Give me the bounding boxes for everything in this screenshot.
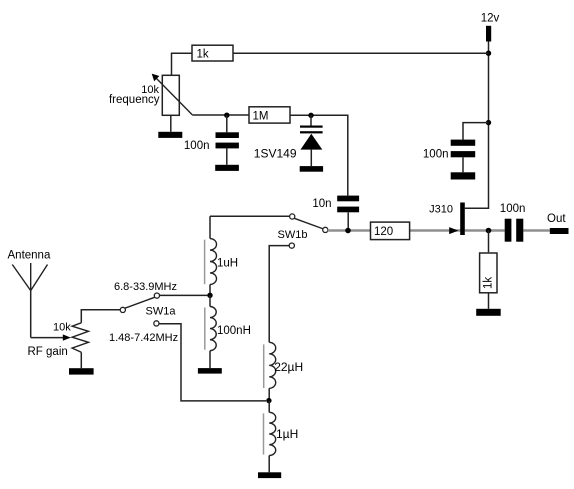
svg-text:100n: 100n <box>184 140 210 152</box>
wire 1M to 10n corner <box>290 115 348 195</box>
inductor L 1uH (low) core line <box>263 413 265 454</box>
node dot (varactor) <box>308 113 313 118</box>
wire SW1a bottom throw to low band tank <box>159 324 266 401</box>
inductor L 22uH core line <box>263 344 265 388</box>
wire 1k to potentiometer <box>172 53 193 75</box>
svg-text:J310: J310 <box>429 204 453 216</box>
node dot (source/output) <box>486 228 492 234</box>
wire node to capacitor <box>226 115 228 132</box>
capacitor C 100n (output) <box>505 219 524 242</box>
ground (100n near pot) <box>215 165 239 171</box>
wire cap to ground <box>226 148 228 164</box>
wire top rail <box>233 52 489 54</box>
transistor Q J310 drain wire <box>465 123 489 209</box>
varactor D 1SV149 <box>300 115 323 166</box>
svg-text:1k: 1k <box>197 49 209 61</box>
ground (RF pot) <box>69 368 94 374</box>
ground (100nH) <box>198 368 222 374</box>
svg-text:6.8-33.9MHz: 6.8-33.9MHz <box>114 281 177 293</box>
svg-text:100n: 100n <box>423 148 449 160</box>
node dot (10n to main) <box>345 228 351 234</box>
node dot top rail <box>486 51 491 56</box>
wire pot top to SW1a pole <box>81 310 120 323</box>
svg-text:frequency: frequency <box>109 94 160 106</box>
supply stub 12v <box>486 26 491 42</box>
ground (varactor) <box>300 166 323 172</box>
antenna symbol <box>12 263 47 291</box>
wire pot to ground <box>170 115 172 132</box>
svg-text:1SV149: 1SV149 <box>254 146 297 160</box>
switch SW1b pole contact <box>323 227 328 232</box>
svg-text:RF gain: RF gain <box>28 346 68 358</box>
svg-text:1.48-7.42MHz: 1.48-7.42MHz <box>109 332 178 344</box>
wire SW1b bottom throw to 22uH <box>269 246 289 343</box>
wire node to 1uH2 <box>268 401 270 412</box>
switch SW1a lever <box>125 297 155 308</box>
svg-text:1uH: 1uH <box>217 258 238 270</box>
svg-text:1M: 1M <box>253 111 269 123</box>
wire coil tap to SW1b throw <box>210 215 290 217</box>
inductor L 22uH <box>269 342 276 388</box>
resistor R 1k (source) <box>480 253 497 293</box>
pot wiper arrow (RF gain) <box>63 334 71 340</box>
wire 1k to ground <box>488 292 490 308</box>
wire pot bottom to ground <box>80 352 82 368</box>
svg-text:12v: 12v <box>481 13 500 25</box>
potentiometer wiper arrow <box>152 74 193 115</box>
capacitor C 100n (near pot) <box>216 132 239 148</box>
resistor R 1k (top) <box>192 45 233 61</box>
wire 1uH low to ground <box>268 456 270 473</box>
switch SW1b lever <box>294 218 323 229</box>
wire 100nH to ground <box>209 351 211 368</box>
inductor L 1uH (low band) <box>269 412 276 455</box>
node dot (100n tap) <box>224 113 229 118</box>
svg-text:1µH: 1µH <box>276 427 298 441</box>
ground (bypass cap) <box>451 172 476 179</box>
wire SW1a top throw to tank <box>159 294 207 296</box>
svg-text:10k: 10k <box>53 321 71 333</box>
switch SW1a bottom throw contact <box>154 321 159 326</box>
switch SW1a top throw contact <box>154 293 159 298</box>
transistor Q J310 channel bar <box>460 203 465 236</box>
svg-text:100n: 100n <box>500 203 526 215</box>
wire 10n to main line <box>347 212 349 230</box>
svg-text:1k: 1k <box>483 277 495 289</box>
svg-text:Antenna: Antenna <box>8 249 51 261</box>
wire 1uH to node <box>209 284 211 295</box>
wire 12v vertical <box>488 42 490 123</box>
switch SW1b top throw contact <box>290 214 295 219</box>
capacitor C 100n (bypass) <box>451 140 476 158</box>
inductor L 1uH <box>210 239 217 285</box>
svg-text:22µH: 22µH <box>274 360 303 374</box>
inductor L 1uH core line <box>204 240 206 285</box>
node dot (band tap) <box>207 293 212 298</box>
wire main gray net <box>328 229 550 231</box>
node dot (low band tap) <box>266 398 271 403</box>
potentiometer 10k RF gain zigzag <box>72 323 88 353</box>
svg-text:120: 120 <box>374 226 393 238</box>
wire bypass cap to ground <box>462 157 464 172</box>
capacitor C 10n <box>337 196 359 213</box>
svg-text:SW1b: SW1b <box>278 229 308 241</box>
switch SW1b bottom throw contact <box>289 243 294 248</box>
svg-text:Out: Out <box>547 213 566 225</box>
ground (low band tank) <box>258 472 281 478</box>
wire top of 1uH <box>209 216 211 238</box>
wire node to 100nH <box>209 295 211 306</box>
resistor R 1M <box>249 107 290 123</box>
svg-text:100nH: 100nH <box>217 325 251 337</box>
resistor R 120 <box>371 222 410 240</box>
inductor L 100nH <box>210 307 216 351</box>
wire antenna to pot wiper <box>31 337 64 339</box>
inductor L 100nH core line <box>204 308 206 350</box>
switch SW1a pole contact <box>120 307 125 312</box>
node dot (drain rail) <box>486 120 491 125</box>
ground (pot) <box>158 132 182 138</box>
svg-text:SW1a: SW1a <box>146 306 177 318</box>
transistor Q J310 gate arrow <box>449 227 458 234</box>
svg-text:10n: 10n <box>312 198 331 210</box>
ground (1k source) <box>476 309 501 316</box>
terminal Out stub <box>550 228 569 234</box>
wire source to 1k <box>488 231 490 253</box>
wire rail to bypass cap <box>463 123 489 140</box>
wire 22uH to node <box>268 388 270 401</box>
potentiometer 10k frequency body <box>162 75 179 115</box>
wire wiper to 1M <box>192 114 249 116</box>
